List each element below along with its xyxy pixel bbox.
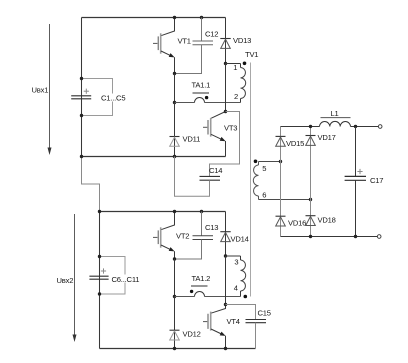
svg-text:VD12: VD12 [183,330,201,339]
svg-text:VD11: VD11 [183,135,201,144]
wire rail of bottom section [100,211,226,213]
bracket bank C6...C11 [100,257,126,295]
wire rectifier left column [280,127,282,237]
svg-text:VT1: VT1 [178,37,191,46]
current transformer TA1.2 [190,286,208,297]
wire rectifier right column [310,127,312,237]
svg-text:C14: C14 [209,166,222,175]
junction C6 top [98,255,101,258]
capacitor C13 [175,212,214,260]
wire terminal 1 [226,63,241,65]
terminal output plus [378,125,382,129]
svg-text:VD16: VD16 [288,219,306,228]
junction winding3 node [224,254,227,257]
diode VD12 [170,297,180,349]
diode VD13 [220,18,230,64]
svg-text:VD14: VD14 [231,235,249,244]
junction rail2 left [98,210,101,213]
junction VD11 bottom [173,155,176,158]
svg-text:C17: C17 [370,176,383,185]
svg-text:VD18: VD18 [318,216,336,225]
junction VD17 top [309,125,312,128]
junction VT4 collector [224,303,227,306]
winding 3-4 of TV1 [241,256,246,297]
junction VT1 emitter node [173,72,176,75]
transistor VT3 [203,112,226,157]
svg-text:L1: L1 [331,109,339,118]
inductor L1 [320,118,351,127]
label C6...C11 [111,275,141,284]
polarity dot winding 5-6 [254,160,258,164]
winding 1-2 of TV1 [241,64,246,103]
diode VD17 [306,136,316,146]
transistor VT1 [153,18,175,74]
svg-text:C12: C12 [205,30,218,39]
diode VD18 [306,216,316,226]
wire VD13 node to VT3 collector [225,64,227,112]
capacitor C15 [226,305,267,349]
capacitor C12 [175,18,214,74]
wire VD14 node to VT4 collector [225,256,227,305]
wire top rail [82,17,226,19]
svg-text:6: 6 [262,191,266,200]
junction C1 bottom [80,114,83,117]
svg-text:VT2: VT2 [176,232,189,241]
wire output plus rail right [351,126,379,128]
wire step between sections [82,157,100,212]
wire node 5 [259,161,281,163]
junction VT1 collector [173,16,176,19]
svg-text:VD15: VD15 [286,139,304,148]
diode VD14 [220,212,230,257]
junction VT3 collector [224,110,227,113]
wire node 6 [259,199,311,201]
junction node6 [309,198,312,201]
diode VD15 [276,136,286,146]
label C1...C5 [100,93,128,102]
capacitor C1...C5 [71,89,91,99]
junction C12 top [200,16,203,19]
wire mid rail [82,156,226,158]
wire VT1 emitter to TA1.1 [174,74,176,103]
wire left column top section [81,18,83,157]
svg-text:VT4: VT4 [227,317,240,326]
capacitor C17 [345,127,366,237]
winding 5-6 of TV1 [253,162,258,200]
svg-text:2: 2 [234,92,238,101]
wire TA1.1 run [175,102,241,104]
wire output plus rail left [281,126,320,128]
polarity dot winding 1-2 [243,62,247,66]
junction C17 top [354,125,357,128]
wire bottom rail [100,348,256,350]
junction TA1.1 left [173,101,176,104]
svg-text:TA1.2: TA1.2 [192,274,211,283]
svg-text:C13: C13 [205,223,218,232]
junction mid rail left [80,155,83,158]
svg-text:TV1: TV1 [245,50,258,59]
wire terminal 3 [226,255,241,257]
junction node5 [279,160,282,163]
svg-text:VD17: VD17 [318,133,336,142]
svg-text:5: 5 [262,164,266,173]
junction C6 bottom [98,292,101,295]
wire TA1.2 run [175,296,241,298]
bracket bank C1...C5 [82,79,113,116]
junction VD18 bottom [309,235,312,238]
wire left column bottom section [99,212,101,349]
svg-text:VD13: VD13 [233,36,251,45]
wire VT2 emitter to TA1.2 [174,259,176,297]
current transformer TA1.1 [193,93,210,103]
junction VT2 emitter node [173,257,176,260]
svg-text:Uвх1: Uвх1 [32,86,49,95]
input arrow Uvx2 [73,214,77,342]
junction VT4 emitter rail [224,347,227,350]
svg-text:C1...C5: C1...C5 [101,93,125,102]
capacitor C14 [175,112,240,197]
svg-text:3: 3 [234,258,238,267]
svg-text:4: 4 [234,284,238,293]
svg-text:Uвх2: Uвх2 [57,276,74,285]
diode VD11 [170,103,180,157]
svg-text:TA1.1: TA1.1 [192,81,211,90]
capacitor C6...C11 [89,268,108,279]
transistor VT2 [153,212,175,260]
wire output minus rail [281,236,378,238]
junction winding1 node [224,62,227,65]
input arrow Uvx1 [48,24,52,155]
svg-text:1: 1 [233,63,237,72]
diode VD16 [276,216,286,226]
junction C13 top [200,210,203,213]
junction TA1.2 left [173,295,176,298]
svg-text:C6...C11: C6...C11 [112,275,140,284]
junction C17 bottom [354,235,357,238]
terminal output minus [377,235,381,239]
polarity dot winding 3-4 [244,295,248,299]
transformer core TV1 [250,63,252,297]
junction C1 top [80,77,83,80]
svg-text:VT3: VT3 [224,124,237,133]
junction VD12 bottom [173,347,176,350]
transistor VT4 [203,305,226,349]
junction VT2 collector [173,210,176,213]
svg-text:C15: C15 [258,309,271,318]
